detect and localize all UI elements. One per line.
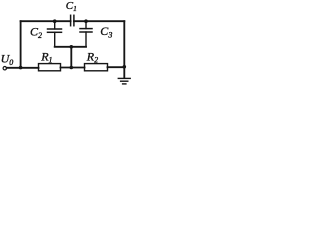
ground: [118, 78, 130, 84]
resistor R1: [39, 64, 61, 71]
wire middle drop to node between R1 and R2: [70, 47, 72, 68]
svg-text:C3: C3: [100, 24, 112, 39]
wire middle horizontal: [55, 46, 86, 48]
svg-text:C1: C1: [66, 0, 77, 13]
capacitor C3: [80, 21, 92, 47]
wire top right segment: [74, 20, 124, 22]
wire bottom from input terminal: [7, 67, 39, 69]
node dot middle wire: [70, 45, 74, 49]
capacitor C2: [48, 21, 62, 47]
svg-text:C2: C2: [30, 25, 42, 40]
svg-text:R2: R2: [86, 49, 98, 64]
wire left rail: [20, 21, 22, 67]
node dot top wire / C2: [53, 19, 57, 23]
node dot bottom wire / left rail: [19, 66, 23, 70]
wire from R2 to right rail: [108, 66, 125, 68]
svg-text:U0: U0: [1, 52, 14, 67]
wire right rail: [123, 21, 125, 77]
capacitor C1: [71, 15, 74, 25]
wire top left segment: [21, 20, 71, 22]
node dot top wire / C3: [84, 19, 88, 23]
wire between R1 and R2: [61, 67, 85, 69]
resistor R2: [85, 64, 108, 71]
svg-text:R1: R1: [40, 49, 52, 64]
node dot bottom wire / right rail: [123, 65, 127, 69]
terminal circle U0: [3, 67, 6, 70]
node dot bottom wire / drop: [70, 66, 74, 70]
